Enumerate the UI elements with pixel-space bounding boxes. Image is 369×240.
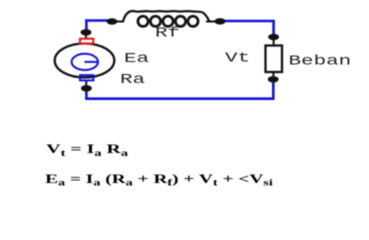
svg-text:Ea = Ia (Ra + Rf) + Vt + <Vsi: Ea = Ia (Ra + Rf) + Vt + <Vsi bbox=[45, 173, 274, 188]
svg-text:Beban: Beban bbox=[289, 54, 352, 69]
svg-text:Ea: Ea bbox=[124, 51, 149, 66]
svg-text:Rf: Rf bbox=[155, 26, 180, 41]
svg-text:Vt = Ia Ra: Vt = Ia Ra bbox=[46, 142, 128, 158]
svg-text:Ra: Ra bbox=[120, 72, 145, 87]
svg-text:Vt: Vt bbox=[225, 51, 250, 66]
